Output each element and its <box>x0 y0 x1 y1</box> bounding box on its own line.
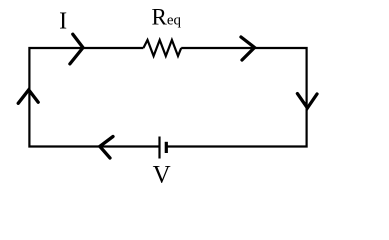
svg-text:Req: Req <box>152 5 182 30</box>
resistor Req (zigzag body) <box>143 40 181 56</box>
battery V: short plate (negative) <box>165 142 168 153</box>
battery V: long plate (positive) <box>158 137 160 159</box>
current arrow on top-left wire (pointing right) <box>70 34 83 64</box>
svg-text:I: I <box>59 8 67 34</box>
current arrow on bottom wire (pointing left) <box>100 137 113 159</box>
svg-text:V: V <box>153 162 171 189</box>
wire: battery negative lead, left side and top-left segment to resistor <box>29 48 159 147</box>
current arrow on left wire (pointing up) <box>18 90 38 104</box>
current arrow on top-right wire (pointing right) <box>241 37 255 60</box>
wire: resistor to top-right corner, right side, and bottom segment to battery positive plate <box>166 48 306 147</box>
current arrow on right wire (pointing down) <box>297 94 317 108</box>
